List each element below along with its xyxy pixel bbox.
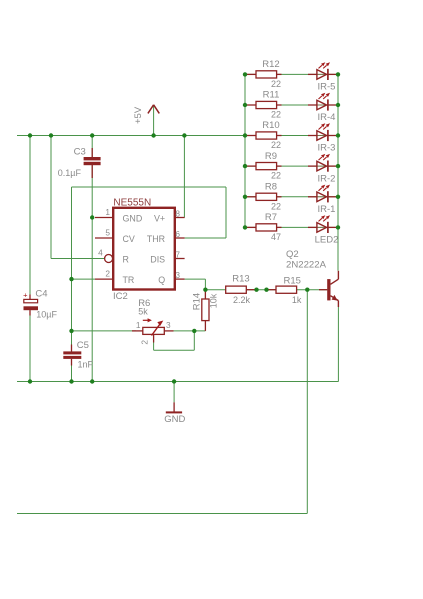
svg-text:R12: R12 (262, 59, 279, 70)
svg-text:IR-5: IR-5 (318, 82, 336, 93)
svg-text:IC2: IC2 (113, 291, 128, 302)
svg-text:LED2: LED2 (315, 235, 339, 246)
svg-text:3: 3 (166, 320, 171, 330)
svg-text:V+: V+ (154, 213, 165, 223)
svg-text:R8: R8 (265, 182, 277, 193)
svg-text:6: 6 (175, 229, 180, 239)
svg-text:7: 7 (175, 249, 180, 259)
svg-text:8: 8 (175, 208, 180, 218)
svg-text:+5V: +5V (133, 106, 144, 124)
svg-text:R10: R10 (262, 120, 279, 131)
svg-text:R9: R9 (265, 151, 277, 162)
svg-text:3: 3 (175, 270, 180, 280)
svg-text:IR-2: IR-2 (318, 173, 336, 184)
svg-text:22: 22 (271, 79, 281, 89)
svg-text:1k: 1k (292, 295, 302, 305)
svg-text:10k: 10k (208, 293, 218, 308)
svg-text:IR-4: IR-4 (318, 112, 336, 123)
svg-text:C5: C5 (77, 340, 89, 351)
svg-text:C3: C3 (74, 147, 86, 158)
svg-text:NE555N: NE555N (113, 197, 151, 208)
svg-text:1: 1 (105, 207, 110, 217)
svg-text:22: 22 (271, 201, 281, 211)
svg-text:DIS: DIS (150, 254, 165, 264)
svg-text:GND: GND (123, 213, 143, 223)
svg-text:CV: CV (123, 234, 135, 244)
svg-text:5k: 5k (138, 306, 148, 316)
svg-text:47: 47 (271, 232, 281, 242)
svg-text:TR: TR (123, 275, 135, 285)
svg-text:22: 22 (271, 140, 281, 150)
svg-text:IR-1: IR-1 (318, 204, 336, 215)
svg-text:R7: R7 (265, 212, 277, 223)
svg-text:0.1µF: 0.1µF (58, 168, 82, 178)
svg-text:2N2222A: 2N2222A (286, 260, 327, 271)
svg-text:2.2k: 2.2k (233, 295, 251, 305)
svg-text:1nF: 1nF (78, 360, 94, 370)
svg-text:2: 2 (139, 340, 149, 345)
svg-text:+: + (23, 290, 28, 299)
svg-text:5: 5 (105, 228, 110, 238)
svg-text:THR: THR (147, 234, 165, 244)
svg-text:R: R (123, 254, 129, 264)
svg-text:R11: R11 (263, 90, 280, 101)
svg-text:22: 22 (271, 171, 281, 181)
svg-text:22: 22 (271, 110, 281, 120)
svg-text:1: 1 (136, 320, 141, 330)
svg-text:2: 2 (105, 269, 110, 279)
svg-text:R15: R15 (283, 276, 300, 287)
svg-text:4: 4 (98, 248, 103, 258)
svg-text:R13: R13 (232, 274, 249, 285)
svg-text:R14: R14 (191, 293, 202, 310)
svg-text:Q: Q (158, 275, 165, 285)
svg-text:IR-3: IR-3 (318, 143, 336, 154)
svg-text:C4: C4 (35, 288, 47, 299)
svg-text:10µF: 10µF (36, 310, 57, 320)
svg-text:GND: GND (164, 414, 185, 425)
